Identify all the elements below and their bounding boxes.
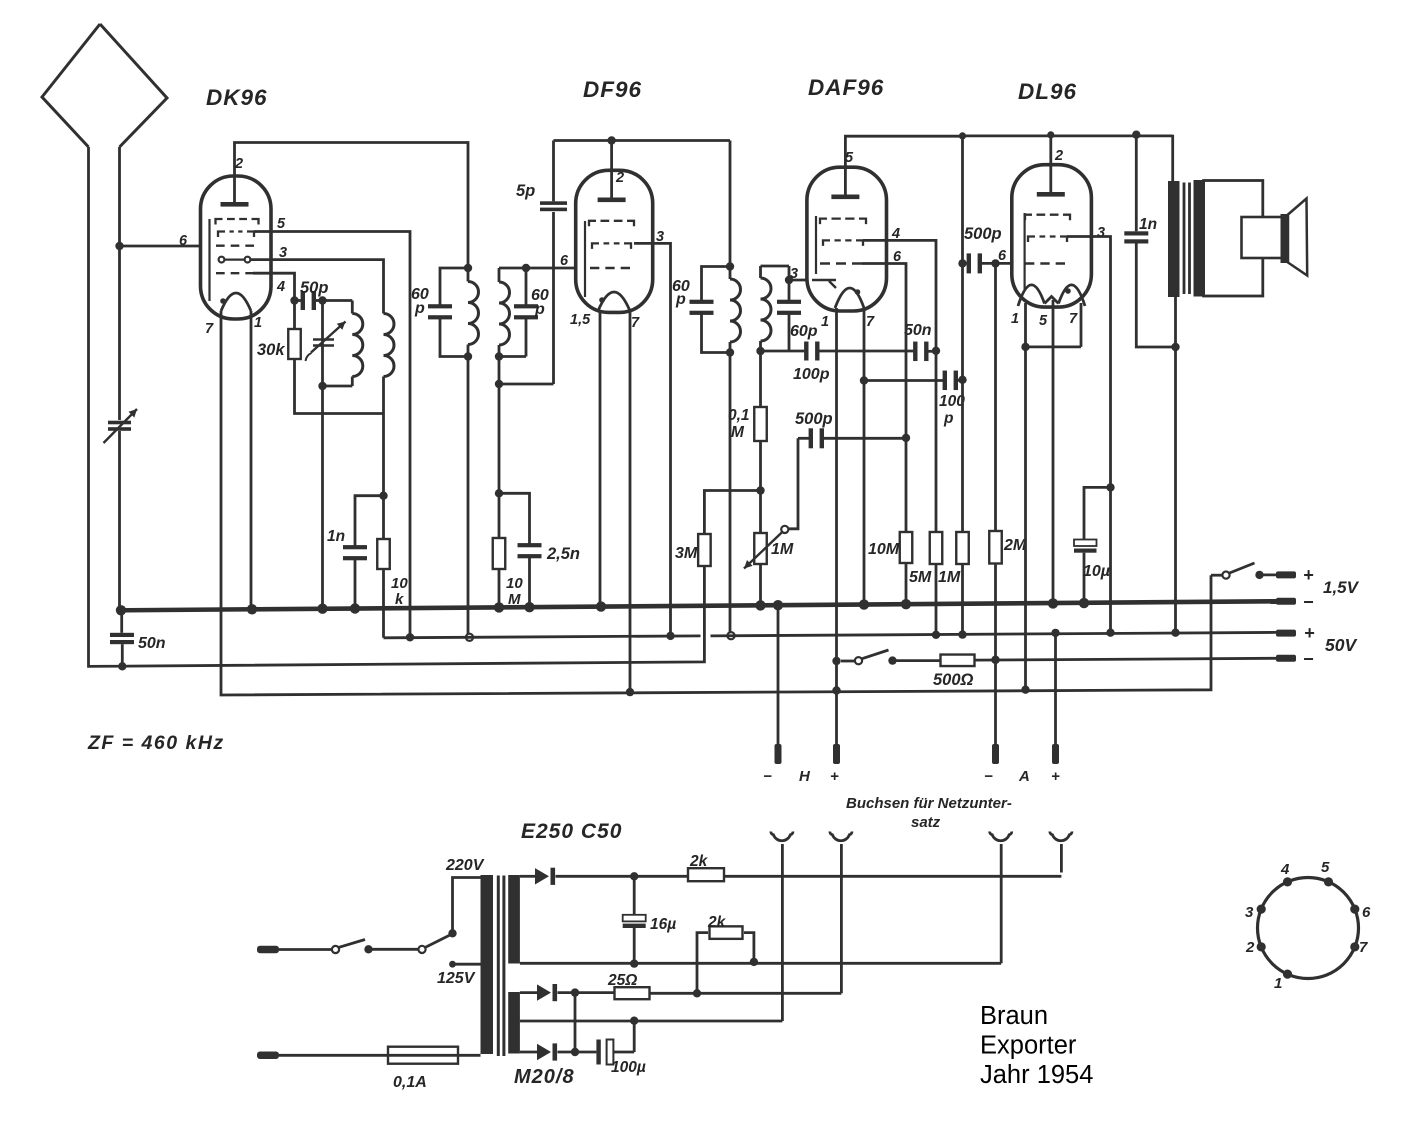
DF96 anode bar and pin2 riser (598, 198, 626, 203)
DK96 anode bar (221, 202, 249, 207)
svg-text:1: 1 (1011, 311, 1019, 327)
wire 220V tap (453, 878, 481, 934)
svg-text:+: + (1304, 623, 1315, 643)
wire 10k to +50V rail corner (382, 569, 385, 638)
wire mains upper with double switch (279, 948, 332, 951)
svg-text:220V: 220V (445, 857, 485, 874)
tube socket pins (1283, 970, 1292, 979)
wire DK96 pin2 riser and top wire to IF1 primary (235, 143, 469, 269)
wire 125V tap (449, 961, 456, 968)
capacitor 50n (913, 342, 917, 362)
DK96 internal cathode strap (208, 219, 210, 301)
wire DF96 pin1-5 filament to bus (599, 311, 602, 607)
speaker frame (1204, 181, 1263, 297)
svg-text:10M: 10M (868, 541, 900, 558)
wire 50V minus via 500 ohm and switch (832, 657, 840, 665)
transformer core (498, 876, 504, 1057)
svg-text:−: − (1303, 649, 1314, 669)
svg-text:p: p (414, 300, 425, 317)
node IF1 primary bottom (464, 352, 472, 360)
wire DK96 pin1 filament to bus (250, 311, 253, 610)
capacitor 100µ (596, 1040, 600, 1065)
DL96 anode bar and pin2 riser (1037, 192, 1065, 197)
resistor 10M (905, 438, 908, 532)
svg-text:+: + (1303, 565, 1314, 585)
resistor 30k grid leak (293, 301, 296, 330)
svg-text:2M: 2M (1003, 537, 1027, 554)
wire DAF96 pin4 screen (863, 240, 936, 532)
wire lower rectifier top (520, 991, 537, 994)
resistor 10k screen feed (377, 539, 390, 569)
svg-text:−: − (984, 768, 993, 785)
svg-text:7: 7 (205, 321, 214, 337)
wire tank bottom (323, 385, 353, 388)
svg-text:4: 4 (276, 279, 285, 295)
node H minus from bus (777, 605, 780, 744)
svg-text:1: 1 (1274, 975, 1282, 992)
terminal H plus stub (833, 744, 840, 764)
node DL96 grid 2M tap (991, 259, 999, 267)
svg-text:p: p (943, 410, 953, 427)
svg-text:k: k (395, 591, 404, 608)
DK96 grid g3 dashes (pin6) (216, 244, 254, 246)
bus junction nodes (247, 604, 257, 614)
node 2.5n tap (495, 489, 503, 497)
IF1 primary coil (467, 268, 470, 282)
svg-text:100µ: 100µ (611, 1059, 646, 1076)
capacitor 500p AF coupling (798, 437, 810, 440)
svg-text:−: − (1303, 592, 1314, 612)
wire oscillator feedback to 10k (382, 377, 385, 540)
svg-text:6: 6 (1362, 904, 1371, 921)
node DK96 pin5 on +50V rail (406, 633, 414, 641)
node 500p to diode line (902, 434, 910, 442)
wire output transformer primary bottom to +50V (1174, 297, 1177, 633)
svg-text:2,5n: 2,5n (546, 545, 580, 563)
IF2 primary coil (729, 267, 732, 280)
svg-text:6: 6 (560, 253, 569, 269)
svg-text:50V: 50V (1325, 635, 1357, 655)
svg-text:+: + (830, 768, 839, 785)
svg-text:−: − (763, 768, 772, 785)
svg-text:ZF = 460 kHz: ZF = 460 kHz (87, 732, 225, 754)
node output transformer bottom (1171, 343, 1179, 351)
svg-text:6: 6 (998, 248, 1007, 264)
wire mains lower with fuse (279, 1054, 481, 1057)
tube V2 DF96 envelope (576, 170, 653, 312)
capacitor 1n screen bypass (355, 496, 384, 547)
terminal 50V minus (1276, 655, 1296, 662)
svg-text:50p: 50p (300, 279, 328, 297)
wire IF2 secondary bottom (761, 350, 805, 353)
DL96 top wire to output transformer (963, 135, 1173, 181)
svg-text:0,1: 0,1 (728, 407, 750, 424)
svg-text:5p: 5p (516, 182, 535, 200)
DAF96 anode bar and pin5 riser (831, 195, 859, 200)
wire DAF96 pin6 diode (862, 264, 906, 438)
terminal 50V plus (1276, 630, 1296, 637)
svg-text:DK96: DK96 (206, 85, 268, 110)
svg-text:50n: 50n (904, 322, 932, 339)
speaker coil bar (1281, 214, 1289, 263)
transformer primary winding (481, 875, 494, 1054)
svg-text:3M: 3M (675, 545, 698, 562)
svg-text:Braun: Braun (980, 1002, 1048, 1030)
DL96 internal strap (1023, 213, 1025, 290)
DAF96 internal strap (815, 216, 817, 274)
DL96 filament double arch (1018, 285, 1085, 306)
DK96 grid row g4 (pin5) (218, 232, 254, 238)
svg-text:125V: 125V (437, 970, 476, 987)
antenna (42, 24, 167, 147)
capacitor 5p feedback (499, 212, 554, 384)
svg-text:M: M (731, 424, 745, 441)
wire DK96 pin4 oscillator grid (253, 273, 295, 300)
svg-text:50n: 50n (138, 635, 166, 652)
node 1n tap (379, 492, 387, 500)
DF96 grid rows (589, 221, 634, 227)
svg-text:5: 5 (277, 216, 286, 232)
mains plug lower terminal (257, 1052, 279, 1060)
resistor 2k dropper (688, 868, 724, 881)
svg-text:10: 10 (506, 575, 523, 592)
svg-text:1n: 1n (327, 528, 345, 545)
DK96 filament (221, 293, 251, 311)
svg-text:0,1A: 0,1A (393, 1074, 427, 1091)
wire tank top (323, 299, 353, 302)
IF1 secondary coil (498, 268, 501, 282)
transformer secondary lower (508, 992, 520, 1054)
svg-text:500p: 500p (795, 410, 833, 428)
wire DAF96 pin1 filament to H+ socket (835, 308, 838, 744)
svg-text:E250 C50: E250 C50 (521, 820, 622, 843)
svg-text:1,5V: 1,5V (1323, 578, 1360, 597)
svg-text:7: 7 (631, 315, 640, 331)
svg-text:7: 7 (1359, 939, 1368, 956)
node 100p anode bypass tap (860, 376, 868, 384)
resistor 10M DF96 grid leak (493, 538, 506, 569)
resistor 25 ohm (615, 987, 650, 999)
socket hook A minus (990, 832, 1012, 841)
svg-text:5: 5 (1039, 313, 1048, 329)
svg-text:10: 10 (391, 575, 408, 592)
DAF96 diode plate (812, 280, 836, 288)
svg-text:25Ω: 25Ω (607, 972, 637, 989)
wire IF2 secondary to DAF96 pin3 (789, 279, 807, 282)
DAF96 anode line down to 1M (961, 136, 964, 532)
node AF takeoff (756, 486, 764, 494)
node antenna to DK96 g3 (115, 242, 123, 250)
socket hook H plus (830, 832, 852, 841)
svg-text:30k: 30k (257, 341, 285, 359)
svg-text:6: 6 (179, 233, 188, 249)
capacitor 100p (804, 342, 808, 361)
volume control 1M potentiometer (759, 491, 762, 534)
DF96 top wire anode to IF2 primary (554, 139, 731, 142)
wire DF96 pin3 screen to +50V rail (634, 243, 671, 636)
resistor 1M anode load (956, 532, 969, 564)
svg-text:1: 1 (821, 314, 829, 330)
capacitor 60p IF1 secondary (499, 267, 576, 270)
svg-text:2: 2 (234, 156, 243, 172)
DK96 internal shield circles (pin3) (219, 257, 225, 263)
node 5p tap (495, 380, 503, 388)
svg-text:2: 2 (1054, 148, 1063, 164)
speaker cone (1288, 199, 1307, 276)
svg-text:Buchsen für Netzunter-: Buchsen für Netzunter- (846, 795, 1012, 812)
tube socket pinout circle (1258, 878, 1359, 979)
capacitor 60p IF1 primary (440, 268, 468, 307)
DAF96 grid rows (820, 219, 866, 225)
wire DK96 pin7 filament to 1.5V+ line (221, 311, 1211, 695)
svg-text:1n: 1n (1139, 216, 1157, 233)
wire DL96 pin3 screen (1067, 237, 1111, 633)
wire DK96 pin6 grid wire (120, 245, 201, 248)
resistor 5M (930, 532, 943, 564)
wire DL96 pin5 filament center tap to bus (1052, 300, 1055, 604)
DK96 grid row g5 (216, 219, 259, 225)
trimmer capacitor on antenna feeder (108, 421, 131, 425)
capacitor 2.5n (499, 493, 530, 545)
node A plus from +50V rail (1051, 629, 1059, 637)
svg-text:DAF96: DAF96 (808, 75, 884, 100)
svg-text:2k: 2k (707, 914, 727, 931)
node DAF96 grid tap (785, 276, 793, 284)
svg-text:1M: 1M (938, 569, 961, 586)
svg-text:Exporter: Exporter (980, 1032, 1077, 1060)
wire DK96 pin5 to +50V rail (254, 232, 410, 638)
IF2 secondary coil (759, 266, 762, 278)
diode D2 (537, 984, 551, 1000)
DL96 grid rows (1025, 215, 1070, 221)
tube V1 DK96 envelope (201, 176, 272, 319)
oscillator feedback coil L2 (384, 314, 395, 377)
tube V3 DAF96 envelope (807, 167, 887, 311)
wire 500p to volume control wiper (788, 438, 798, 529)
oscillator coil L1 tuned winding (351, 301, 354, 314)
svg-text:10µ: 10µ (1083, 563, 1110, 580)
svg-text:A: A (1018, 768, 1030, 785)
socket hook H minus (771, 832, 793, 841)
resistor 0.1M diode load (759, 351, 762, 407)
capacitor 60p IF2 primary (702, 267, 731, 303)
svg-text:60p: 60p (790, 323, 818, 340)
output transformer secondary winding (1194, 180, 1205, 297)
DF96 filament (598, 292, 630, 311)
svg-text:3: 3 (1097, 225, 1105, 241)
node IF1 secondary bottom (495, 352, 503, 360)
resistor 2k bypass loop (697, 933, 708, 994)
mains plug upper terminal (257, 946, 279, 954)
resistor 500 ohm (941, 655, 975, 667)
terminal H minus stub (775, 744, 782, 764)
svg-text:100p: 100p (793, 366, 830, 383)
capacitor 16µ (633, 876, 636, 915)
svg-text:2k: 2k (689, 853, 709, 870)
svg-text:5: 5 (845, 150, 854, 166)
svg-text:3: 3 (1245, 904, 1254, 921)
svg-text:1M: 1M (771, 541, 794, 558)
capacitor 1n tone (1135, 135, 1138, 232)
svg-text:3: 3 (279, 245, 287, 261)
node tank bottom (318, 382, 326, 390)
svg-text:500Ω: 500Ω (933, 671, 974, 689)
wire lower rectifier bottom (520, 1051, 537, 1054)
tube V4 DL96 envelope (1012, 165, 1092, 307)
capacitor 60p IF2 secondary (761, 266, 790, 302)
DAF96 filament (835, 288, 864, 308)
IF2 primary line (729, 141, 732, 267)
transformer secondary upper (508, 875, 520, 964)
output transformer core (1184, 183, 1190, 295)
svg-text:H: H (799, 768, 811, 785)
svg-text:4: 4 (1280, 861, 1290, 878)
wire chassis bus 1.5V minus (121, 601, 1277, 610)
wire DF96 pin7 filament to 1.5V+ line (629, 311, 632, 692)
svg-text:3: 3 (790, 266, 798, 282)
IF1 primary line (464, 264, 472, 272)
wire secondary upper bottom (520, 844, 1001, 963)
wire DL96 filament pins 1 and 7 (1026, 303, 1082, 690)
terminal 1.5V plus (1276, 571, 1296, 578)
svg-text:satz: satz (911, 814, 941, 831)
svg-text:+: + (1051, 768, 1060, 785)
connector IF1 primary to +50V (open junction) (466, 634, 473, 641)
speaker driver (1242, 217, 1284, 258)
wire +50V rail (384, 632, 1277, 637)
capacitor 10µ screen decoupling (1084, 487, 1111, 539)
socket hook A plus (1050, 832, 1072, 841)
svg-text:DL96: DL96 (1018, 79, 1077, 104)
wire DAF96 pin7 filament to bus (863, 308, 866, 604)
svg-text:7: 7 (1069, 311, 1078, 327)
svg-text:5: 5 (1321, 859, 1330, 876)
capacitor 50n antenna (116, 605, 126, 615)
resistor 2M grid resistor (994, 263, 997, 531)
wire rectifier top (520, 875, 535, 878)
svg-text:DF96: DF96 (583, 77, 642, 102)
connector IF2 primary to +50V (open junction) (727, 632, 734, 639)
DK96 grid g1 dashes (pin4) (216, 272, 254, 274)
oscillator tank left branch (321, 301, 324, 610)
svg-text:M20/8: M20/8 (514, 1066, 575, 1088)
capacitor 50p oscillator coupling (290, 296, 298, 304)
terminal A plus stub (1052, 744, 1059, 764)
svg-text:p: p (534, 301, 545, 318)
svg-text:500p: 500p (964, 225, 1002, 243)
wire AF line to 3M (704, 491, 760, 535)
svg-text:2: 2 (1245, 939, 1255, 956)
wire transformer center tap (520, 844, 783, 1021)
output transformer primary winding (1168, 181, 1180, 297)
svg-text:5M: 5M (909, 569, 932, 586)
resistor 3M grid leak (698, 534, 711, 566)
svg-text:1: 1 (254, 315, 262, 331)
diode D1 (535, 868, 549, 884)
capacitor 100p anode bypass (864, 379, 944, 382)
node 50n to pin4 line (932, 347, 940, 355)
wire DK96 pin3 screen to oscillator coil (251, 260, 384, 314)
fuse 0.1A (388, 1047, 458, 1064)
wire D2 D3 link (574, 993, 577, 1052)
wire antenna left feeder / AGC return to 3M (89, 147, 705, 666)
capacitor 500p to DL96 grid (963, 262, 967, 265)
terminal A minus stub (992, 744, 999, 764)
DF96 internal strap (584, 221, 586, 297)
svg-text:p: p (675, 291, 686, 308)
terminal 1.5V minus (1276, 598, 1296, 605)
svg-text:16µ: 16µ (650, 916, 676, 933)
oscillator coil adjustable core arrow (313, 340, 334, 346)
svg-text:7: 7 (866, 314, 875, 330)
wire antenna right feeder down to chassis bus (118, 147, 121, 610)
switch 1.5V battery (1222, 572, 1229, 579)
svg-text:Jahr 1954: Jahr 1954 (980, 1061, 1093, 1089)
diode D3 (537, 1044, 551, 1060)
svg-text:2: 2 (615, 170, 624, 186)
svg-text:1,5: 1,5 (570, 312, 591, 328)
